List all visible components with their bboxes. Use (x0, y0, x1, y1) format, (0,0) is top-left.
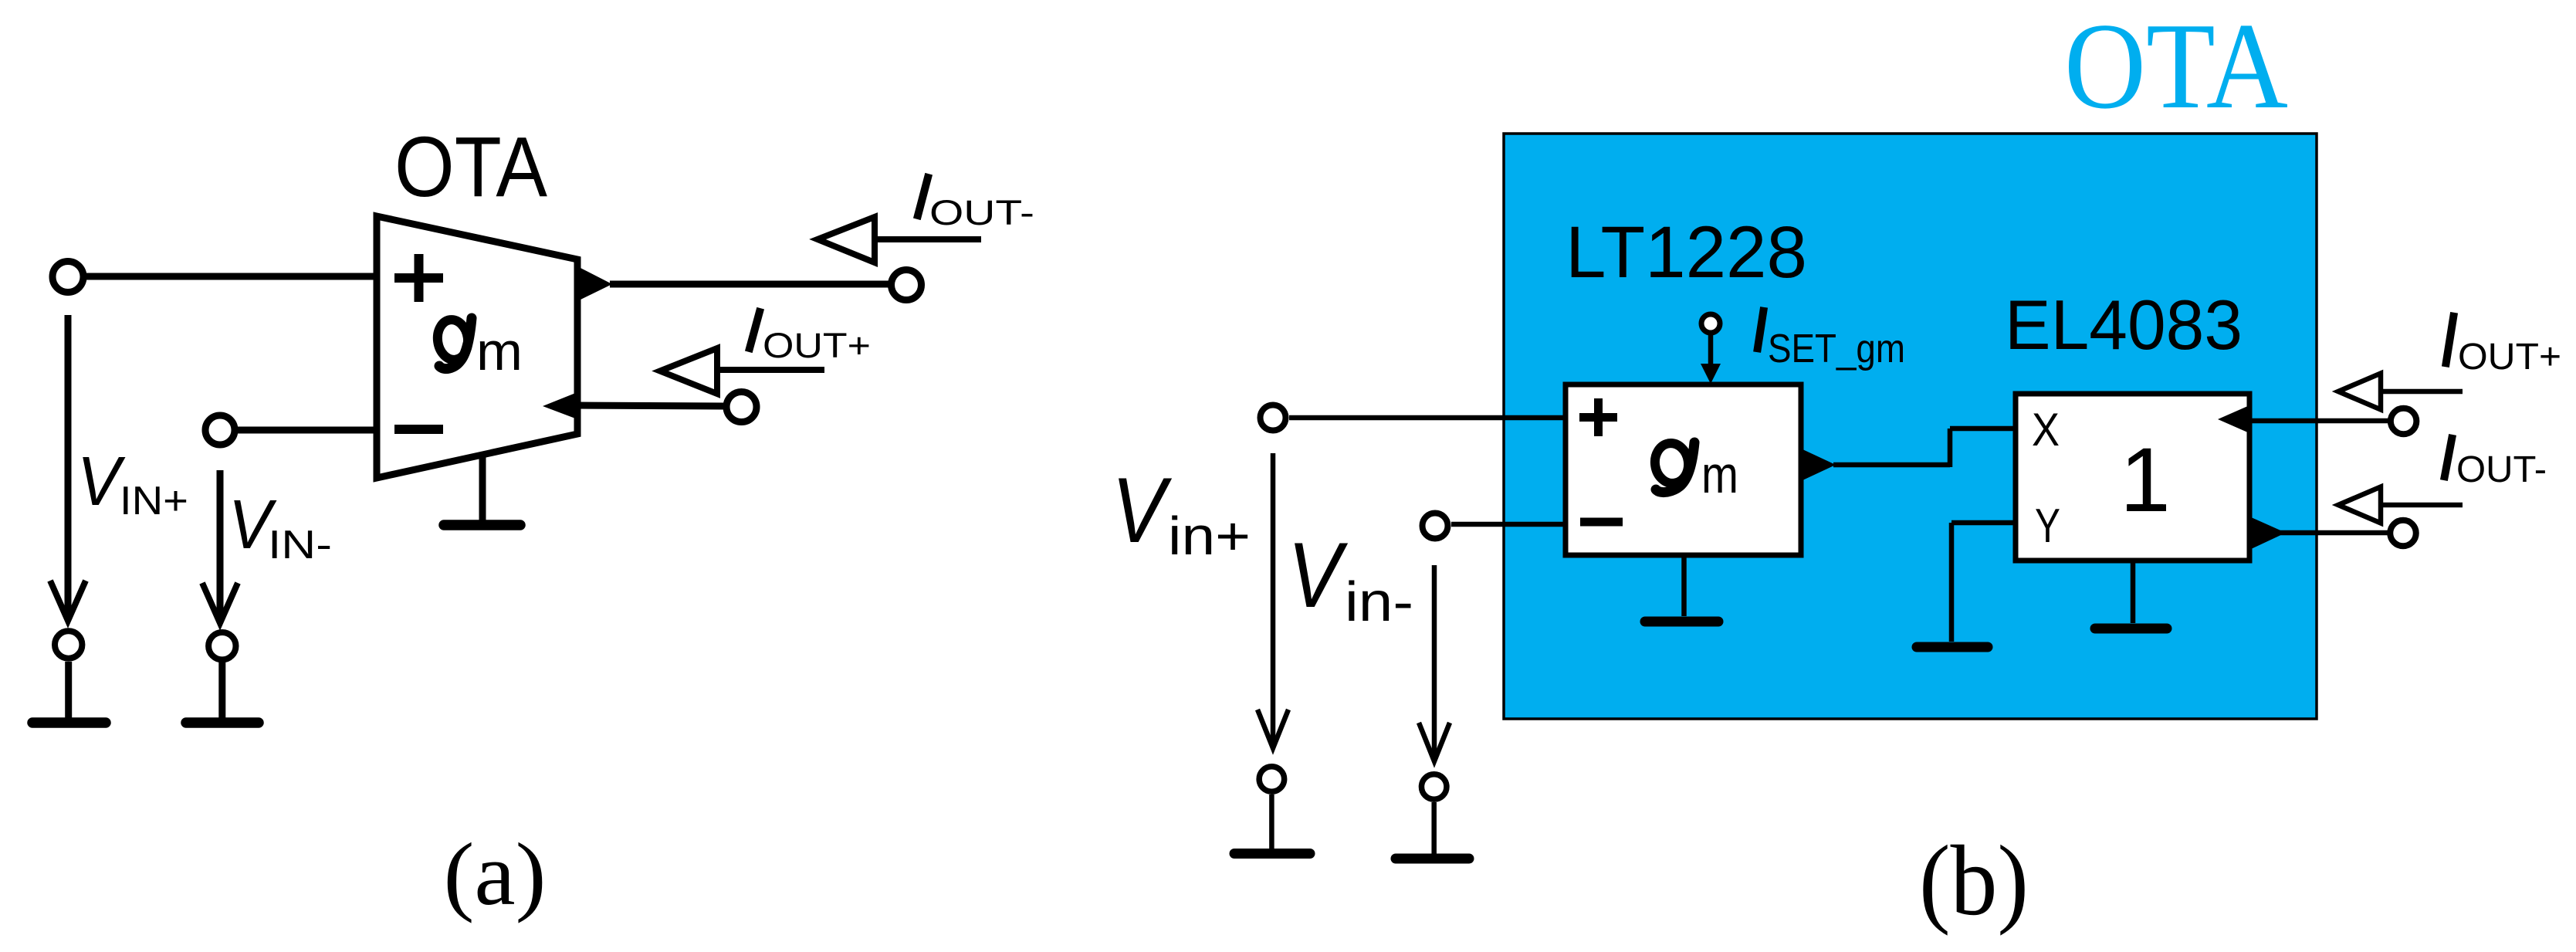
svg-text:OUT+: OUT+ (2458, 337, 2561, 378)
svg-text:Y: Y (2035, 500, 2060, 553)
svg-text:LT1228: LT1228 (1566, 212, 1807, 293)
svg-text:1: 1 (2120, 429, 2171, 531)
svg-text:IN-: IN- (268, 523, 332, 567)
svg-text:V: V (1112, 459, 1173, 562)
svg-text:OUT-: OUT- (2456, 449, 2547, 490)
svg-text:V: V (77, 443, 126, 520)
svg-text:V: V (1288, 523, 1349, 627)
svg-text:(a): (a) (444, 825, 547, 924)
svg-text:X: X (2032, 404, 2060, 456)
svg-text:in+: in+ (1168, 506, 1251, 566)
svg-text:OTA: OTA (394, 120, 548, 215)
svg-text:SET_gm: SET_gm (1768, 327, 1905, 371)
svg-text:m: m (1701, 446, 1738, 504)
svg-text:OUT-: OUT- (929, 193, 1034, 232)
svg-text:OUT+: OUT+ (763, 326, 871, 365)
svg-text:EL4083: EL4083 (2005, 286, 2243, 364)
svg-text:IN+: IN+ (120, 479, 188, 523)
svg-text:in-: in- (1345, 571, 1413, 633)
svg-text:OTA: OTA (2064, 0, 2288, 134)
svg-text:(b): (b) (1919, 825, 2029, 937)
svg-text:m: m (476, 321, 523, 381)
